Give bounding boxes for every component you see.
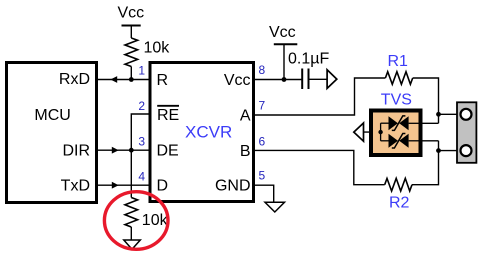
svg-text:R2: R2 <box>389 195 410 212</box>
resistor R3 10k pull-up <box>125 38 170 80</box>
svg-text:B: B <box>240 143 251 160</box>
wire TVS bottom terminal <box>421 140 439 142</box>
TVS D1 box <box>371 92 421 156</box>
svg-text:5: 5 <box>259 169 266 183</box>
svg-text:R1: R1 <box>388 53 409 70</box>
svg-text:3: 3 <box>138 135 145 149</box>
svg-text:10k: 10k <box>142 212 169 229</box>
svg-text:2: 2 <box>138 99 145 113</box>
wire R1 down to bus A <box>413 78 439 123</box>
svg-text:TxD: TxD <box>61 178 90 195</box>
svg-text:7: 7 <box>259 99 266 113</box>
RE overline <box>157 105 179 107</box>
Vcc symbol top-left <box>118 5 145 39</box>
svg-text:GND: GND <box>215 178 251 195</box>
resistor R2 <box>385 178 412 211</box>
svg-text:DE: DE <box>157 143 179 160</box>
svg-text:0.1µF: 0.1µF <box>288 51 329 68</box>
wire top diode to box edge <box>409 122 421 124</box>
wire bus B to connector <box>439 150 461 152</box>
arrow out of DIR <box>112 147 119 154</box>
svg-text:8: 8 <box>259 63 266 77</box>
wire GND pin5 <box>254 185 274 202</box>
svg-text:Vcc: Vcc <box>269 24 296 41</box>
node dot DE tie <box>129 148 134 153</box>
svg-text:6: 6 <box>259 134 266 148</box>
wire RE to tie <box>131 114 149 150</box>
ground right of cap <box>327 70 337 89</box>
svg-text:4: 4 <box>138 170 145 184</box>
node dot R/pullup <box>129 77 134 82</box>
wire B pin6 down to R2 <box>254 150 385 184</box>
node dot Vcc/cap <box>282 77 287 82</box>
ground XCVR <box>265 202 285 212</box>
svg-text:Vcc: Vcc <box>224 72 251 89</box>
ground bottom-left <box>124 240 141 249</box>
svg-text:RE: RE <box>157 107 179 124</box>
wire TVS internal common <box>380 123 382 141</box>
connector J1 <box>457 102 476 163</box>
wire earth to TVS <box>364 131 381 133</box>
XCVR U2 block <box>150 63 254 202</box>
TVS diode pair bottom <box>389 134 409 149</box>
wire A pin7 up to R1 <box>254 78 385 115</box>
svg-text:MCU: MCU <box>34 107 70 124</box>
wire tie down to pull-down <box>130 150 132 197</box>
MCU U1 block <box>7 63 97 203</box>
capacitor C1 0.1uF <box>288 51 329 90</box>
TVS diode pair top <box>389 116 409 130</box>
wire bottom diode to box edge <box>409 140 421 142</box>
earth triangle left of TVS <box>354 123 364 141</box>
svg-text:Vcc: Vcc <box>118 5 145 22</box>
svg-text:TVS: TVS <box>381 92 412 109</box>
red highlight circle <box>104 192 168 250</box>
wire DIR to DE <box>98 149 149 151</box>
wire RxD to R <box>98 79 149 81</box>
Vcc symbol right <box>269 24 297 80</box>
svg-text:DIR: DIR <box>62 143 90 160</box>
svg-text:A: A <box>240 108 251 125</box>
node dot bus B <box>436 148 441 153</box>
arrow into RxD <box>110 76 117 83</box>
wire TVS top terminal <box>421 122 439 124</box>
wire bus A to connector <box>439 113 461 115</box>
svg-text:XCVR: XCVR <box>185 123 232 142</box>
wire TxD to D <box>98 184 149 186</box>
svg-text:10k: 10k <box>144 40 171 57</box>
wire Vcc pin8 <box>254 79 302 81</box>
wire R2 up to bus B <box>412 141 439 185</box>
arrow out of TxD <box>112 182 119 189</box>
svg-text:1: 1 <box>138 64 145 78</box>
svg-text:RxD: RxD <box>59 71 90 88</box>
svg-text:D: D <box>157 178 169 195</box>
resistor R1 <box>385 53 412 85</box>
resistor R4 10k pull-down <box>125 198 169 241</box>
node dot TVS common <box>378 130 382 134</box>
svg-text:R: R <box>157 72 169 89</box>
node dot bus A <box>436 112 441 117</box>
